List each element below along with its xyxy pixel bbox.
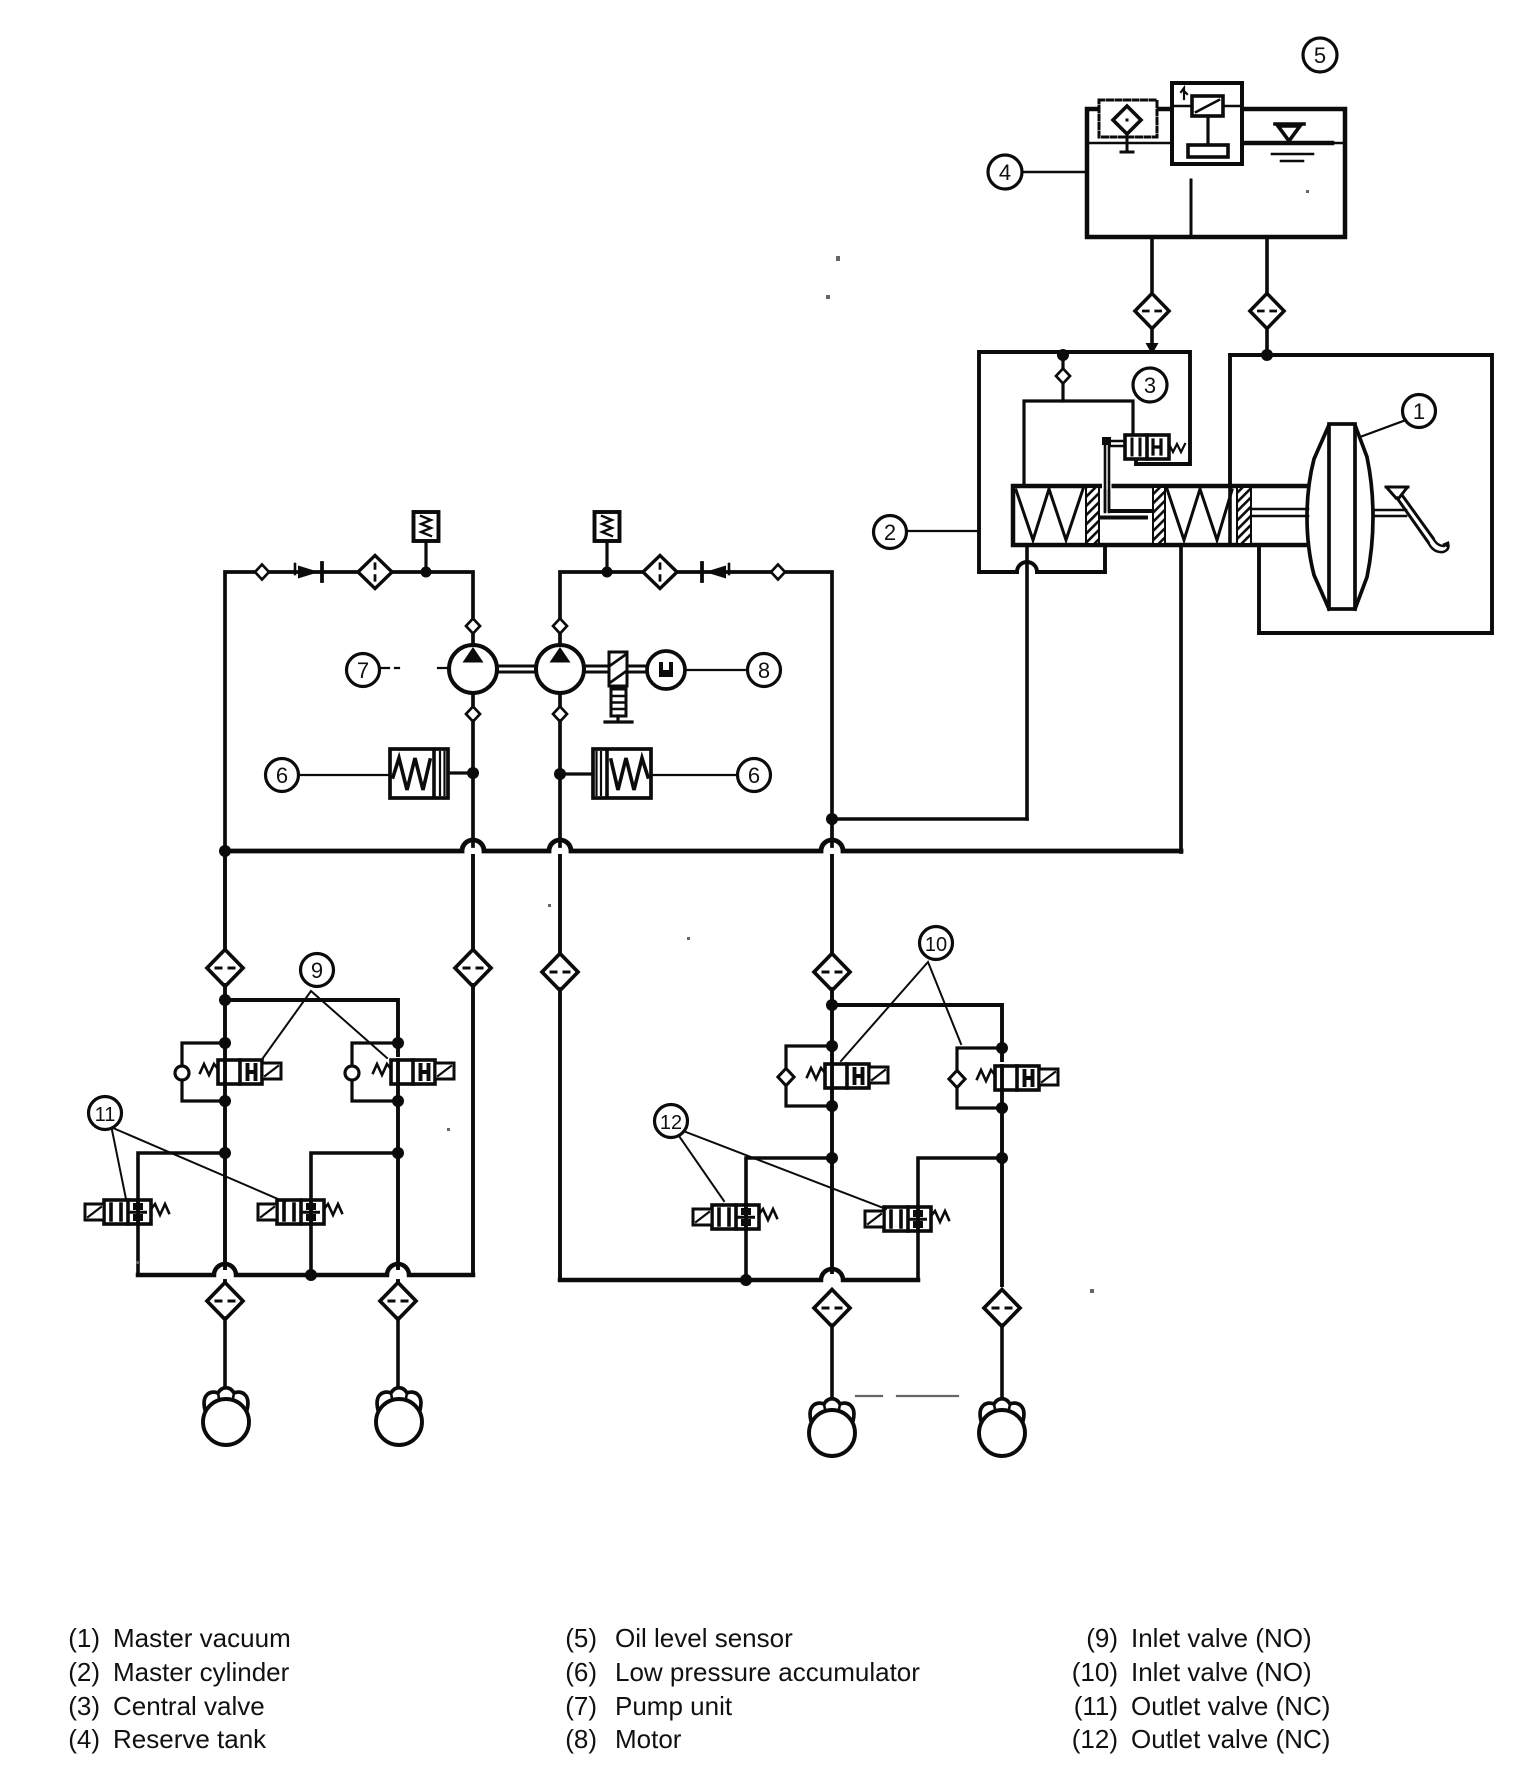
leader label 11: [112, 1128, 285, 1202]
junction accumulator 2: [554, 768, 566, 780]
wire tank to central valve: [1150, 237, 1154, 294]
svg-text:(4): (4): [68, 1724, 100, 1754]
bypass loop valve 10b: [957, 1048, 1002, 1108]
bypass check ball 9a: [175, 1066, 189, 1080]
svg-text:8: 8: [758, 658, 770, 683]
filter F1: [358, 555, 392, 588]
outlet valve 12b (NC): [865, 1207, 949, 1231]
push rod right: [1373, 510, 1406, 516]
svg-text:Inlet valve (NO): Inlet valve (NO): [1131, 1657, 1312, 1687]
junction accumulator 1: [467, 767, 479, 779]
tube valve to cylinder chamber: [1105, 441, 1125, 512]
main return bus: [225, 840, 1181, 851]
junction bypass bottom 10b: [996, 1102, 1008, 1114]
svg-text:(2): (2): [68, 1657, 100, 1687]
accumulator A2 (6): [593, 749, 651, 798]
junction bypass bottom 10a: [826, 1100, 838, 1112]
junction branch center: [826, 999, 838, 1011]
inlet valve 9a (NO): [200, 1060, 281, 1084]
oil level sensor (5) box: [1172, 83, 1242, 164]
sensor internal wire: [1174, 105, 1240, 108]
check valve CV2 (flow left): [702, 563, 729, 581]
svg-text:Master cylinder: Master cylinder: [113, 1657, 290, 1687]
center return riser continues: [558, 989, 562, 1280]
label (6) right: [738, 759, 771, 792]
wire MC output A down: [1025, 545, 1029, 819]
junction relief 2: [602, 567, 613, 578]
MC piston 1 (hatched): [1086, 487, 1099, 544]
motor M (8): [647, 651, 685, 689]
center circuit main line: [830, 856, 834, 955]
fluid level symbol (triangle): [1275, 124, 1304, 141]
small diamond D2: [771, 565, 785, 580]
pump P1 (7): [449, 645, 497, 693]
leader label 7: [381, 667, 448, 669]
leader label 8: [686, 669, 747, 671]
junction bypass bottom 9b: [392, 1095, 404, 1107]
small diamond on that wire: [1056, 369, 1070, 384]
svg-text:12: 12: [660, 1112, 682, 1134]
svg-text:(5): (5): [565, 1623, 597, 1653]
sensor float: [1188, 145, 1228, 157]
wire tank to master vacuum box: [1265, 237, 1269, 294]
junction bypass bottom 9a: [219, 1095, 231, 1107]
label (10): [920, 927, 953, 960]
arrowhead into central valve box: [1146, 343, 1159, 355]
small diamond above pump 2: [553, 619, 567, 634]
accumulator A1 (6): [390, 749, 448, 798]
bypass check diamond 10b: [949, 1070, 965, 1087]
junction return bus: [305, 1269, 317, 1281]
inlet valve 10a (NO): [807, 1064, 888, 1088]
svg-text:(12): (12): [1072, 1724, 1118, 1754]
svg-text:1: 1: [1413, 399, 1425, 424]
sensor element box: [1192, 96, 1223, 116]
inlet valve 9b (NO): [373, 1060, 454, 1084]
small diamond below pump 1: [466, 707, 480, 722]
pedal foot pad: [1428, 538, 1448, 552]
push rod left: [1251, 509, 1308, 516]
branch wire to second inlet: [225, 1000, 398, 1055]
pedal pivot: [1386, 487, 1408, 498]
svg-text:(1): (1): [68, 1623, 100, 1653]
wire to wheel FL: [223, 1281, 227, 1285]
check valve CV1 (flow right): [295, 563, 322, 581]
motor mount symbol: [611, 689, 626, 716]
branch wire to second inlet center: [832, 1005, 1002, 1060]
svg-text:Low pressure accumulator: Low pressure accumulator: [615, 1657, 920, 1687]
leader label 9: [263, 991, 387, 1058]
outlet valve 11a (NC): [85, 1200, 169, 1224]
main line continues: [830, 989, 834, 1272]
svg-text:Inlet valve (NO): Inlet valve (NO): [1131, 1623, 1312, 1653]
label (7): [347, 654, 380, 687]
label (2): [874, 516, 907, 549]
svg-text:2: 2: [884, 520, 896, 545]
leader label 6 left: [299, 774, 390, 776]
wheel cylinder FL: [203, 1388, 249, 1445]
inner loop of central valve: [1024, 401, 1133, 486]
pump P2: [536, 645, 584, 693]
hump on box3 bottom edge over MC output: [1017, 562, 1037, 572]
pedal lever: [1397, 495, 1433, 542]
left circuit main line: [223, 851, 227, 951]
MC internal wall: [1228, 486, 1232, 545]
junction relief 1: [421, 567, 432, 578]
relief valve RV1: [414, 512, 439, 572]
inlet valve 10b (NO): [977, 1066, 1058, 1090]
junction bus left: [219, 845, 231, 857]
main line continues: [223, 985, 227, 1268]
wire outlet 12a to return bus: [744, 1229, 748, 1280]
wheel cylinder RR: [376, 1388, 422, 1445]
svg-text:3: 3: [1144, 373, 1156, 398]
sensor float stem: [1206, 116, 1209, 145]
small diamond above pump 1: [466, 619, 480, 634]
wire outlet 12b to return bus: [916, 1231, 920, 1280]
svg-text:9: 9: [311, 958, 323, 983]
label (3): [1133, 368, 1167, 402]
filter F10: [542, 954, 578, 991]
wire accumulator 1 to pump line: [448, 771, 470, 774]
booster center plate: [1329, 424, 1355, 609]
central valve solenoid body: [1125, 435, 1169, 459]
svg-text:(7): (7): [565, 1691, 597, 1721]
sensor drain line in tank: [1190, 180, 1193, 235]
leader line label 1: [1360, 420, 1406, 437]
wire pump1 down: [471, 721, 475, 846]
svg-text:Oil level sensor: Oil level sensor: [615, 1623, 793, 1653]
outlet valve 11b (NC): [258, 1200, 342, 1224]
label (11): [89, 1097, 122, 1130]
center group return bus: [560, 1269, 918, 1280]
svg-text:7: 7: [357, 658, 369, 683]
wire to outlet valve 11a: [138, 1153, 225, 1200]
svg-text:6: 6: [276, 763, 288, 788]
MC piston 3 (hatched): [1237, 487, 1251, 544]
shaft coupling (hatched): [609, 652, 627, 686]
filter F4: [814, 954, 850, 991]
central valve spring: [1169, 444, 1185, 452]
scan artifact dashes: [856, 1395, 958, 1397]
top right supply line: [560, 572, 832, 846]
second inlet line continues: [396, 1084, 400, 1268]
noise specks: [836, 256, 840, 261]
filter F7: [455, 950, 491, 987]
bypass check diamond 10a: [778, 1068, 794, 1085]
svg-text:11: 11: [95, 1104, 116, 1126]
filter F11: [814, 1290, 850, 1327]
junction center return bus: [740, 1274, 752, 1286]
svg-text:Master vacuum: Master vacuum: [113, 1623, 291, 1653]
junction bypass top 10a: [826, 1040, 838, 1052]
junction bypass top 10b: [996, 1042, 1008, 1054]
sensor lead glyph: [1181, 88, 1187, 99]
wire filter to wheel FR: [830, 1325, 834, 1399]
bypass loop valve 9b: [352, 1043, 398, 1101]
master cylinder (2) body: [1013, 486, 1307, 545]
junction output A: [826, 813, 838, 825]
bypass loop valve 10a: [786, 1046, 832, 1106]
left return riser continues: [471, 985, 475, 1275]
leader line label 2: [907, 530, 979, 532]
wire output A to center circuit: [832, 817, 1027, 821]
filter diamond in tank: [1113, 106, 1141, 134]
wire outlet 11b to return bus: [309, 1224, 313, 1275]
wire MC output B down: [1179, 545, 1183, 852]
suction filter (dashed box): [1099, 100, 1157, 137]
svg-text:6: 6: [748, 763, 760, 788]
tube gap through cylinder wall: [1102, 483, 1112, 490]
valve seat bars in chamber: [1099, 511, 1151, 518]
filter F12: [984, 1290, 1020, 1327]
svg-text:Outlet valve (NC): Outlet valve (NC): [1131, 1691, 1330, 1721]
junction bypass top 9a: [219, 1037, 231, 1049]
wire accumulator 2 to pump line: [563, 772, 593, 775]
wheel cylinder RL: [979, 1399, 1025, 1456]
wire pump2 down: [558, 721, 562, 846]
wire filter to wheel RL: [1000, 1325, 1004, 1399]
label (12): [655, 1105, 688, 1138]
second inlet line continues center: [1000, 1090, 1004, 1285]
svg-text:Central valve: Central valve: [113, 1691, 265, 1721]
filter F9: [380, 1283, 416, 1320]
svg-text:10: 10: [925, 934, 947, 956]
svg-text:Outlet valve (NC): Outlet valve (NC): [1131, 1724, 1330, 1754]
svg-text:(8): (8): [565, 1724, 597, 1754]
outlet valve 12a (NC): [693, 1205, 777, 1229]
svg-text:Pump unit: Pump unit: [615, 1691, 733, 1721]
MC spring 2: [1167, 489, 1232, 540]
leader line label 4: [1022, 171, 1087, 174]
bypass check ball 9b: [345, 1066, 359, 1080]
wire to outlet valve 12a: [746, 1158, 832, 1205]
svg-text:(10): (10): [1072, 1657, 1118, 1687]
master vacuum (1) box outline: [1230, 355, 1492, 633]
filter F2: [643, 555, 677, 588]
wire box3 top to inner loop: [1061, 354, 1064, 401]
label (8): [748, 654, 781, 687]
leader label 12: [679, 1132, 886, 1209]
filter F5: [1135, 293, 1169, 328]
filter F8: [207, 1283, 243, 1320]
left group return bus: [138, 1264, 473, 1275]
MC spring 1: [1016, 489, 1083, 540]
leader label 10: [841, 962, 961, 1061]
pump shaft: [497, 666, 648, 672]
wire outlet 11a to return bus: [136, 1224, 140, 1275]
reserve tank (4) body: [1087, 109, 1345, 237]
booster shell right: [1355, 425, 1373, 609]
svg-text:Reserve tank: Reserve tank: [113, 1724, 267, 1754]
wire to wheel RR: [396, 1281, 400, 1285]
center return riser: [558, 856, 562, 955]
svg-text:(3): (3): [68, 1691, 100, 1721]
svg-text:(11): (11): [1074, 1691, 1118, 1721]
filter stem: [1121, 134, 1133, 152]
relief valve RV2: [595, 512, 620, 572]
svg-text:(9): (9): [1086, 1623, 1118, 1653]
small diamond below pump 2: [553, 707, 567, 722]
top left supply line: [225, 572, 473, 851]
wire filter to wheel RR: [396, 1318, 400, 1389]
svg-text:Motor: Motor: [615, 1724, 682, 1754]
junction on box 1 top: [1261, 349, 1273, 361]
fluid surface dashes: [1272, 154, 1313, 161]
filter F6: [1250, 293, 1284, 328]
junction outlet branch 12a: [826, 1152, 838, 1164]
junction bypass top 9b: [392, 1037, 404, 1049]
wire filter to box: [1150, 328, 1154, 345]
label (5): [1303, 38, 1337, 72]
label (4): [988, 155, 1022, 189]
small diamond D1: [255, 565, 269, 580]
wire to outlet valve 11b: [311, 1153, 398, 1200]
leader label 6 right: [651, 774, 737, 776]
wire to outlet valve 12b: [918, 1158, 1002, 1207]
filter F3: [207, 950, 243, 987]
left return riser: [471, 856, 475, 951]
junction branch: [219, 994, 231, 1006]
label (9): [301, 954, 334, 987]
wheel cylinder FR: [809, 1399, 855, 1456]
wire filter to wheel FL: [223, 1318, 227, 1389]
svg-text:5: 5: [1314, 43, 1326, 68]
central valve (3) box outline: [979, 352, 1190, 572]
junction outlet branch right: [392, 1147, 404, 1159]
junction outlet branch left: [219, 1147, 231, 1159]
wire filter to box: [1265, 328, 1269, 354]
booster shell left: [1307, 425, 1329, 609]
bypass loop valve 9a: [182, 1043, 225, 1101]
fluid level line: [1089, 142, 1343, 145]
junction outlet branch 12b: [996, 1152, 1008, 1164]
MC piston 2 (hatched): [1153, 487, 1165, 544]
label (1): [1403, 395, 1436, 428]
svg-text:4: 4: [999, 160, 1011, 185]
label (6) left: [266, 759, 299, 792]
svg-text:(6): (6): [565, 1657, 597, 1687]
junction on box3 top: [1057, 349, 1069, 361]
